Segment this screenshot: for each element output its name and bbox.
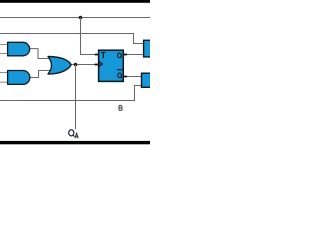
wire OR output to clock input of flip-flop xyxy=(69,64,98,66)
wire clock to T input of flip-flop xyxy=(81,18,98,55)
wire lower bus to next stage xyxy=(0,86,142,101)
wire AND A2 input 1 xyxy=(0,72,9,74)
gate next stage (partial, top) xyxy=(144,40,153,57)
junction node QA xyxy=(74,63,78,67)
wire clock input stub xyxy=(95,64,99,66)
wire clock line xyxy=(0,17,150,19)
junction on clock line xyxy=(79,16,83,20)
wire Q-bar output to next stage xyxy=(123,76,142,78)
or-gate O1 xyxy=(48,57,71,75)
wire Q output to next stage xyxy=(123,54,144,56)
pin label Q xyxy=(118,53,122,58)
wire node to QA output xyxy=(75,65,77,130)
wire Q-bar output stub xyxy=(123,76,127,78)
label B xyxy=(119,105,122,110)
clock wedge xyxy=(99,61,103,66)
wire AND A1 input 2 xyxy=(0,53,9,55)
T flip-flop B xyxy=(99,50,124,81)
wire Q output stub xyxy=(123,54,127,56)
wire T input stub xyxy=(95,54,99,56)
wire AND A1 input 1 xyxy=(0,44,9,46)
wire AND A2 input 2 xyxy=(0,81,9,83)
wire count-enable line xyxy=(0,34,145,44)
gate next stage (partial, bottom) xyxy=(142,73,153,87)
and-gate A2 xyxy=(8,71,30,85)
label QA xyxy=(69,130,79,139)
wire AND A1 output to OR input 1 xyxy=(29,49,50,59)
pin label T xyxy=(101,53,105,59)
wire AND A2 output to OR input 2 xyxy=(29,71,50,78)
pin label Q-bar xyxy=(117,70,122,78)
and-gate A1 xyxy=(8,42,30,56)
